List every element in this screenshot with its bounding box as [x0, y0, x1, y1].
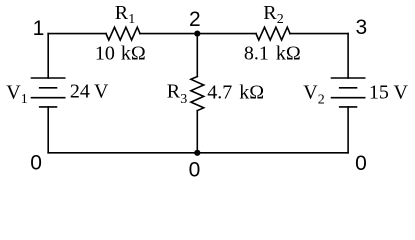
svg-text:1: 1: [128, 12, 135, 27]
battery V2 plate short: [340, 87, 357, 89]
svg-text:4.7 kΩ: 4.7 kΩ: [207, 81, 264, 103]
battery V2 plate short bottom: [340, 106, 357, 108]
wire middle vertical bottom (R3 to bottom rail): [196, 111, 198, 153]
svg-text:R: R: [167, 81, 181, 103]
resistor R3: [191, 77, 204, 111]
svg-text:10 kΩ: 10 kΩ: [95, 43, 146, 65]
svg-text:2: 2: [189, 8, 201, 31]
battery V1 plate short bottom: [40, 106, 57, 108]
resistor R2: [256, 27, 290, 40]
battery V2 plate long top: [332, 77, 365, 79]
wire middle vertical top (node 2 to R3): [196, 34, 198, 77]
battery V1 plate long top: [32, 77, 65, 79]
wire left vertical top (node 1 down to V1): [47, 34, 49, 78]
wire right vertical bottom (V2 to bottom rail): [347, 107, 349, 153]
node 0 junction dot: [194, 150, 200, 156]
svg-text:2: 2: [318, 92, 325, 107]
battery V2 plate long: [332, 97, 365, 99]
wire top-left segment node1 to R1: [48, 33, 106, 35]
svg-text:R: R: [115, 2, 129, 24]
wire bottom rail: [48, 152, 348, 154]
wire R2 to node 3 corner: [290, 33, 348, 35]
svg-text:15 V: 15 V: [369, 81, 409, 103]
svg-text:0: 0: [355, 152, 367, 175]
svg-text:3: 3: [180, 92, 187, 107]
svg-text:2: 2: [277, 12, 284, 27]
wire R1 to R2 through node 2: [140, 33, 256, 35]
wire right vertical top (node 3 down to V2): [347, 34, 349, 78]
battery V1 plate long: [32, 97, 65, 99]
svg-text:0: 0: [30, 152, 42, 175]
node 2 junction dot: [194, 30, 200, 36]
svg-text:V: V: [6, 82, 21, 104]
svg-text:24 V: 24 V: [70, 81, 109, 103]
svg-text:1: 1: [33, 17, 45, 40]
battery V1 plate short: [40, 87, 57, 89]
svg-text:3: 3: [356, 16, 368, 39]
svg-text:0: 0: [189, 158, 201, 181]
svg-text:R: R: [263, 2, 277, 24]
svg-text:8.1 kΩ: 8.1 kΩ: [244, 43, 301, 65]
svg-text:V: V: [303, 81, 318, 103]
resistor R1: [106, 27, 140, 40]
wire left vertical bottom (V1 to bottom rail): [47, 107, 49, 153]
svg-text:1: 1: [21, 92, 28, 107]
